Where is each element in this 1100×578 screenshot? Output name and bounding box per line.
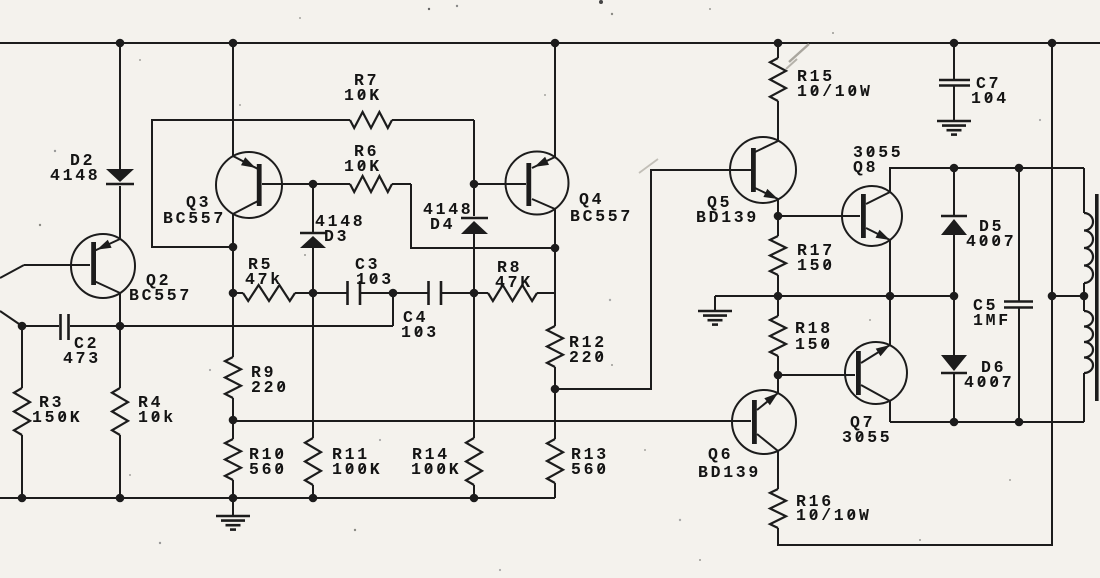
transformer T1 primary lower: [1084, 296, 1093, 422]
transistor Q5: [730, 137, 796, 203]
label R10 value 560: [249, 460, 287, 479]
label R14: [412, 445, 450, 464]
label D2 value 4148: [50, 166, 100, 185]
resistor R9: [225, 293, 241, 420]
wire Q6 collector down: [777, 451, 779, 489]
junction C3-C4 node: [389, 289, 398, 298]
label R11 value 100K: [332, 460, 382, 479]
label R5 value 47k: [245, 270, 283, 289]
label D3: [324, 227, 349, 246]
transformer T1 core: [1095, 194, 1099, 401]
svg-text:473: 473: [63, 349, 101, 368]
label D5: [979, 217, 1004, 236]
junction Q3 base-D3: [309, 180, 318, 189]
wire R16 return: [778, 43, 1052, 545]
wire bottom ground rail: [0, 497, 555, 499]
transistor Q4: [506, 152, 569, 215]
label C5 value 1MF: [973, 311, 1011, 330]
wire Q8 emitter down: [889, 240, 891, 296]
wire Q5 emitter to Q8 base: [778, 215, 860, 217]
resistor R8: [474, 285, 555, 301]
label Q8 type 3055: [853, 143, 903, 162]
label R8 value 47K: [495, 273, 533, 292]
wire feedback node to C2: [0, 311, 22, 326]
wire Q4 collector down: [554, 209, 556, 293]
ground under R10: [216, 498, 250, 530]
label R13: [571, 445, 609, 464]
svg-text:10/10W: 10/10W: [796, 506, 872, 525]
junction Q2 collector node: [116, 322, 125, 331]
svg-text:104: 104: [971, 89, 1009, 108]
resistor R7: [233, 112, 474, 128]
transistor Q6: [732, 390, 796, 454]
wire Q3 col to R9: [232, 247, 234, 293]
transistor Q3: [216, 152, 282, 218]
label R12: [569, 333, 607, 352]
wire Q2 collector to C4 riser: [120, 293, 393, 326]
svg-text:150: 150: [797, 256, 835, 275]
label Q4: [579, 190, 604, 209]
label C3: [355, 255, 380, 274]
junction D5-D6 node: [950, 292, 959, 301]
label R18 value 150: [795, 335, 833, 354]
label Q6: [708, 445, 733, 464]
svg-text:4007: 4007: [964, 373, 1014, 392]
label R5: [248, 255, 273, 274]
svg-text:10K: 10K: [344, 157, 382, 176]
svg-text:100K: 100K: [332, 460, 382, 479]
svg-text:BC557: BC557: [163, 209, 226, 228]
label R3: [39, 393, 64, 412]
resistor R14: [466, 293, 482, 498]
label D5 value 4007: [966, 232, 1016, 251]
label R13 value 560: [571, 460, 609, 479]
label R3 value 150K: [32, 408, 82, 427]
label Q3: [186, 193, 211, 212]
label R9 value 220: [251, 378, 289, 397]
wire Q4 base: [474, 183, 526, 185]
wire R12 to Q5 base riser: [555, 170, 751, 389]
wire R6 to Q4 collector: [411, 184, 555, 248]
wire C2 to Q2 collector node: [70, 325, 120, 327]
label R14 value 100K: [411, 460, 461, 479]
svg-text:10k: 10k: [138, 408, 176, 427]
wire output line lower: [890, 421, 1084, 423]
svg-text:BC557: BC557: [570, 207, 633, 226]
junction center tap node: [1048, 292, 1057, 301]
wire Q8 collector line: [890, 168, 1084, 192]
wire bias line to Q6 base: [233, 420, 751, 422]
label D3 value 4148: [315, 212, 365, 231]
label R4 value 10k: [138, 408, 176, 427]
transistor Q8: [842, 186, 902, 246]
junction R6-Q4 collector: [551, 244, 560, 253]
wire rail to Q4 emitter: [554, 43, 556, 157]
junction D3-R5-R11: [309, 289, 318, 298]
junction R4 bottom: [116, 494, 125, 503]
junction rail-Q3: [229, 39, 238, 48]
svg-text:Q8: Q8: [853, 158, 878, 177]
svg-text:10/10W: 10/10W: [797, 82, 873, 101]
wire Q6 emitter up: [777, 375, 779, 393]
wire R7 to D4: [473, 120, 475, 216]
label Q7 type 3055: [842, 428, 892, 447]
label C2: [74, 334, 99, 353]
capacitor C3: [313, 281, 393, 305]
label D6: [981, 358, 1006, 377]
label R6: [354, 142, 379, 161]
junction R10 bottom: [229, 494, 238, 503]
junction Q5 emitter node: [774, 212, 783, 221]
junction node A: [18, 322, 27, 331]
wire input to Q2 base: [0, 265, 90, 278]
junction rail-Q4: [551, 39, 560, 48]
junction rail-center tap feed: [1048, 39, 1057, 48]
diode D2: [106, 169, 134, 184]
svg-text:100K: 100K: [411, 460, 461, 479]
wire Q7 collector down: [889, 401, 891, 422]
label R4: [138, 393, 163, 412]
svg-text:D4: D4: [430, 215, 455, 234]
label Q5 type BD139: [696, 208, 759, 227]
svg-text:47K: 47K: [495, 273, 533, 292]
label R15: [797, 67, 835, 86]
wire gnd line: [715, 295, 954, 297]
junction R9-R10 node: [229, 416, 238, 425]
label R16: [796, 492, 834, 511]
junction R11 bottom: [309, 494, 318, 503]
svg-text:560: 560: [249, 460, 287, 479]
wire center tap link: [1052, 295, 1084, 297]
label Q3 type BC557: [163, 209, 226, 228]
diode D4: [461, 218, 488, 234]
wire D2 to Q2 emitter: [119, 186, 121, 239]
wire D4 anode down: [473, 234, 475, 293]
wire rail to Q3 emitter: [232, 43, 234, 156]
label C4: [403, 308, 428, 327]
junction R12 bottom: [551, 385, 560, 394]
wire D5 cathode up: [953, 168, 955, 216]
label C5: [973, 296, 998, 315]
label R9: [251, 363, 276, 382]
svg-text:3055: 3055: [842, 428, 892, 447]
svg-text:BC557: BC557: [129, 286, 192, 305]
junction D6 bottom node: [950, 418, 959, 427]
resistor R6: [347, 176, 411, 192]
resistor R12: [547, 293, 563, 389]
junction rail-D2: [116, 39, 125, 48]
transistor Q2: [71, 234, 135, 298]
resistor R3: [14, 326, 30, 498]
wire D5-D6 mid: [953, 235, 955, 355]
svg-text:47k: 47k: [245, 270, 283, 289]
capacitor C5: [1004, 168, 1033, 422]
svg-text:BD139: BD139: [696, 208, 759, 227]
resistor R11: [305, 293, 321, 498]
wire Q5 emitter down: [777, 199, 779, 216]
label R11: [332, 445, 370, 464]
junction rail-C7: [950, 39, 959, 48]
label D4: [430, 215, 455, 234]
resistor R10: [225, 420, 241, 498]
wire D3 anode down: [312, 248, 314, 293]
resistor R4: [112, 326, 128, 498]
resistor R13: [547, 389, 563, 498]
label R16 value 10/10W: [796, 506, 872, 525]
junction R5 left node: [229, 289, 238, 298]
label R7: [354, 71, 379, 90]
diode D5: [941, 216, 967, 235]
wire Q3 collector down: [232, 214, 234, 247]
capacitor C2: [61, 314, 69, 340]
junction Q3 collector node: [229, 243, 238, 252]
label R17: [797, 241, 835, 260]
label R12 value 220: [569, 348, 607, 367]
svg-text:4148: 4148: [50, 166, 100, 185]
resistor R15: [770, 43, 786, 141]
label C2 value 473: [63, 349, 101, 368]
diode D6: [941, 355, 967, 373]
label Q2: [146, 271, 171, 290]
wire R7 left loop: [152, 120, 233, 247]
label R18: [795, 319, 833, 338]
label R10: [249, 445, 287, 464]
wire node A to C2: [22, 325, 59, 327]
wire Q3 base line: [262, 183, 347, 185]
junction transformer tap: [1080, 292, 1089, 301]
svg-text:10K: 10K: [344, 86, 382, 105]
label C4 value 103: [401, 323, 439, 342]
svg-text:103: 103: [401, 323, 439, 342]
junction Q7-Q8 emitters: [886, 292, 895, 301]
junction C5 top node: [1015, 164, 1024, 173]
capacitor C7: [939, 43, 970, 120]
wire R18 to Q7 base: [778, 374, 855, 376]
resistor R5: [233, 285, 313, 301]
resistor R17: [770, 216, 786, 296]
svg-text:220: 220: [569, 348, 607, 367]
label Q5: [707, 193, 732, 212]
junction R14 bottom: [470, 494, 479, 503]
label D4 value 4148: [423, 200, 473, 219]
label R8: [497, 258, 522, 277]
ground under C7: [937, 121, 971, 135]
resistor R16: [770, 451, 786, 528]
label Q8: [853, 158, 878, 177]
ground mid: [698, 296, 732, 325]
svg-text:1MF: 1MF: [973, 311, 1011, 330]
wire D2 column from rail: [119, 43, 121, 169]
svg-text:103: 103: [356, 270, 394, 289]
transistor Q7: [845, 342, 907, 404]
svg-text:4007: 4007: [966, 232, 1016, 251]
junction R3 bottom: [18, 494, 27, 503]
label R15 value 10/10W: [797, 82, 873, 101]
svg-text:D3: D3: [324, 227, 349, 246]
junction D5 top node: [950, 164, 959, 173]
diode D3: [300, 233, 326, 248]
wire Q2 collector down: [119, 293, 121, 326]
label R17 value 150: [797, 256, 835, 275]
junction R18 bottom node: [774, 371, 783, 380]
wire D6 anode down: [953, 374, 955, 422]
label R6 value 10K: [344, 157, 382, 176]
junction Q4 base node: [470, 180, 479, 189]
label D6 value 4007: [964, 373, 1014, 392]
label D2: [70, 151, 95, 170]
label Q7: [850, 413, 875, 432]
svg-text:150: 150: [795, 335, 833, 354]
transformer T1 primary upper: [1084, 168, 1093, 296]
junction emitter gnd node: [774, 292, 783, 301]
label C7 value 104: [971, 89, 1009, 108]
wire D3 cathode up: [312, 184, 314, 233]
label Q6 type BD139: [698, 463, 761, 482]
svg-text:BD139: BD139: [698, 463, 761, 482]
resistor R18: [770, 296, 786, 375]
junction C5 bottom node: [1015, 418, 1024, 427]
label C3 value 103: [356, 270, 394, 289]
junction rail-R15: [774, 39, 783, 48]
svg-text:150K: 150K: [32, 408, 82, 427]
label C7: [976, 74, 1001, 93]
svg-text:220: 220: [251, 378, 289, 397]
capacitor C4: [393, 281, 474, 305]
wire Q7 emitter up: [889, 296, 891, 345]
wire +12V top supply rail: [0, 42, 1100, 44]
junction D4-C4-R14: [470, 289, 479, 298]
svg-text:Q6: Q6: [708, 445, 733, 464]
svg-text:560: 560: [571, 460, 609, 479]
label R7 value 10K: [344, 86, 382, 105]
label Q4 type BC557: [570, 207, 633, 226]
label Q2 type BC557: [129, 286, 192, 305]
